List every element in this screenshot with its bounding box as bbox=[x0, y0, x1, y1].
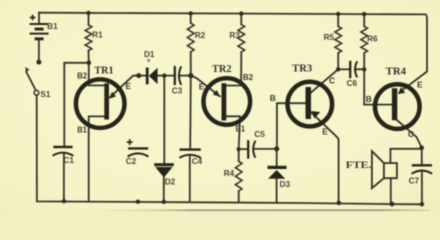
svg-text:E: E bbox=[125, 81, 131, 91]
svg-text:E: E bbox=[322, 126, 328, 136]
svg-text:TR4: TR4 bbox=[386, 67, 406, 78]
svg-text:C: C bbox=[329, 75, 335, 85]
svg-text:B1: B1 bbox=[77, 125, 87, 135]
svg-text:TR3: TR3 bbox=[292, 64, 312, 75]
svg-text:C5: C5 bbox=[254, 130, 265, 139]
svg-text:B2: B2 bbox=[77, 70, 87, 80]
svg-text:S1: S1 bbox=[40, 90, 50, 99]
svg-text:C4: C4 bbox=[192, 157, 203, 166]
svg-text:C2: C2 bbox=[126, 157, 137, 166]
svg-text:TR2: TR2 bbox=[212, 64, 232, 75]
svg-text:D3: D3 bbox=[280, 180, 291, 189]
svg-text:C: C bbox=[408, 129, 414, 139]
svg-text:R1: R1 bbox=[92, 30, 103, 39]
svg-text:R3: R3 bbox=[229, 31, 240, 40]
svg-text:R4: R4 bbox=[224, 169, 235, 178]
svg-text:E: E bbox=[199, 82, 205, 92]
svg-text:D2: D2 bbox=[165, 178, 176, 187]
svg-text:C6: C6 bbox=[347, 79, 358, 88]
svg-text:B: B bbox=[366, 94, 372, 104]
svg-text:R6: R6 bbox=[367, 34, 378, 43]
svg-text:R2: R2 bbox=[195, 31, 206, 40]
svg-text:C1: C1 bbox=[63, 156, 74, 165]
svg-text:C7: C7 bbox=[409, 176, 420, 185]
svg-text:E: E bbox=[417, 79, 423, 89]
svg-text:C3: C3 bbox=[172, 87, 183, 96]
svg-text:o: o bbox=[147, 58, 150, 64]
svg-text:B2: B2 bbox=[243, 72, 254, 82]
svg-text:B1: B1 bbox=[236, 123, 246, 133]
svg-text:B1: B1 bbox=[47, 22, 58, 31]
svg-text:R5: R5 bbox=[324, 33, 335, 42]
svg-text:TR1: TR1 bbox=[94, 65, 113, 76]
svg-text:FTE.: FTE. bbox=[346, 160, 372, 171]
svg-text:B: B bbox=[270, 93, 276, 103]
